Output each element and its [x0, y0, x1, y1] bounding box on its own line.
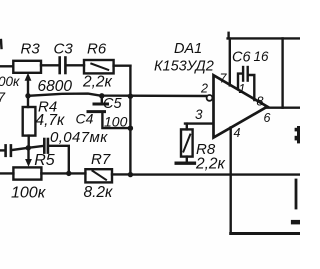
svg-text:7: 7	[220, 72, 228, 86]
svg-text:К153УД2: К153УД2	[154, 59, 214, 75]
svg-text:3: 3	[195, 107, 203, 122]
svg-text:DA1: DA1	[174, 41, 202, 57]
wire long bottom rail	[130, 173, 300, 175]
svg-text:4: 4	[234, 126, 241, 140]
wire pin 7	[229, 39, 231, 86]
junction C5 bottom	[128, 126, 133, 131]
capacitor at left edge (cut)	[0, 149, 4, 151]
junction C5 tap	[99, 93, 104, 98]
resistor R6	[84, 60, 114, 73]
junction R4/C wire	[26, 145, 31, 150]
svg-text:1: 1	[239, 82, 246, 96]
wire R6 right	[114, 64, 131, 66]
resistor R7	[85, 169, 112, 182]
wire pin 4	[229, 127, 231, 233]
svg-text:R7: R7	[91, 151, 111, 168]
svg-text:16: 16	[254, 49, 270, 64]
svg-text:С5: С5	[103, 96, 122, 112]
right edge bar	[291, 220, 300, 225]
stub above rail	[227, 33, 229, 39]
svg-text:R3: R3	[21, 41, 41, 58]
right edge wire lower	[295, 180, 298, 208]
svg-text:00к: 00к	[0, 74, 20, 89]
junction R5/R7	[66, 171, 71, 176]
wire bottom	[231, 232, 300, 235]
capacitor C4	[43, 139, 46, 153]
svg-text:8: 8	[257, 95, 264, 109]
potentiometer R3	[13, 61, 41, 73]
wiper arrow of R3	[27, 80, 29, 96]
svg-text:7: 7	[0, 90, 6, 105]
wire main node to op-amp pin 2	[28, 94, 206, 96]
svg-text:4,7к: 4,7к	[36, 112, 66, 129]
svg-text:2,2к: 2,2к	[195, 156, 226, 173]
resistor R8	[186, 124, 188, 130]
svg-text:С6: С6	[232, 50, 251, 66]
svg-text:2,2к: 2,2к	[82, 74, 113, 91]
svg-text:100к: 100к	[11, 185, 47, 202]
potentiometer R5	[13, 167, 41, 179]
svg-text:8.2к: 8.2к	[84, 184, 114, 201]
svg-text:R6: R6	[87, 41, 107, 58]
ground	[176, 161, 194, 164]
capacitor C5	[101, 96, 103, 103]
right edge component top	[297, 126, 300, 143]
wire vertical feedback bus	[129, 66, 131, 175]
wire output to rail	[281, 38, 283, 107]
wiper arrow of R5	[27, 148, 29, 160]
junction bus/main	[128, 94, 133, 99]
svg-text:6800: 6800	[38, 78, 73, 95]
svg-text:6: 6	[264, 111, 271, 125]
svg-text:R5: R5	[34, 152, 55, 169]
op-amp U1 triangle	[214, 75, 268, 137]
wire input to R3	[0, 65, 13, 67]
wire C3 to R6	[67, 64, 84, 66]
wire C4 right elbow	[49, 146, 69, 174]
junction wiper/main	[25, 93, 30, 98]
wire cap to node	[12, 146, 43, 150]
wire pin 3	[185, 122, 212, 124]
capacitor C3	[58, 58, 61, 74]
wire R3 to C3	[41, 64, 59, 66]
junction bus bottom	[128, 172, 133, 177]
wire output pin 6	[267, 106, 300, 108]
inverting input circle pin 2	[207, 95, 213, 101]
resistor R4	[27, 96, 29, 107]
wire top rail	[228, 37, 300, 39]
capacitor C6	[242, 67, 244, 81]
corner mark	[0, 40, 3, 48]
svg-text:100: 100	[104, 114, 128, 130]
svg-text:2: 2	[200, 82, 208, 96]
svg-text:С3: С3	[54, 41, 74, 58]
svg-text:0,047мк: 0,047мк	[50, 129, 108, 146]
